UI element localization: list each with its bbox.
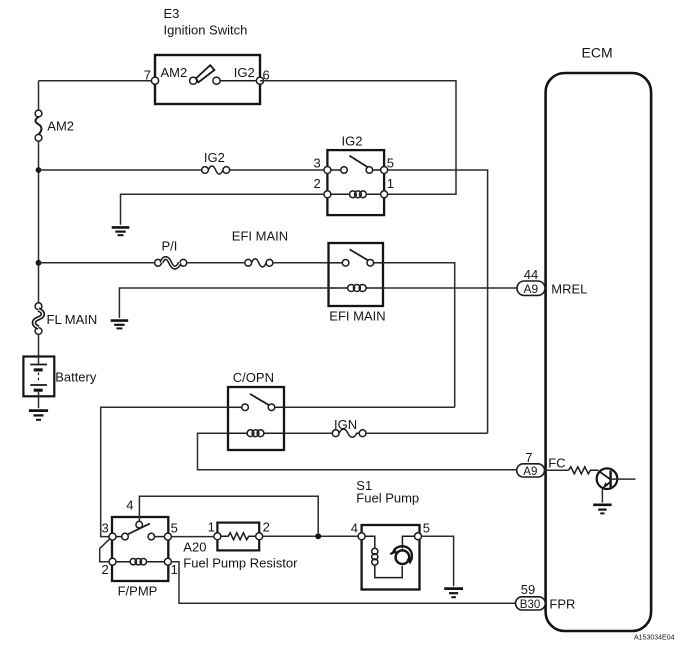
ECM U1 box	[546, 73, 652, 631]
ground battery	[29, 411, 48, 420]
coil relay EFI MAIN	[329, 285, 384, 292]
svg-text:5: 5	[387, 156, 394, 171]
svg-text:C/OPN: C/OPN	[233, 370, 274, 385]
wire: EFI MAIN coil to MREL terminal	[383, 287, 517, 289]
node: junction bus/PI line	[36, 260, 42, 266]
svg-text:5: 5	[171, 520, 178, 535]
relay IG2 box	[327, 150, 384, 215]
node: junction resistor/relay riser	[315, 533, 321, 539]
svg-text:B30: B30	[520, 599, 540, 611]
relay C/OPN box	[228, 387, 284, 450]
svg-text:AM2: AM2	[47, 119, 74, 134]
svg-text:IG2: IG2	[342, 134, 363, 149]
svg-text:FPR: FPR	[549, 597, 575, 612]
connector terminal 7/A9 FC	[517, 464, 545, 478]
svg-text:Fuel Pump Resistor: Fuel Pump Resistor	[183, 556, 298, 571]
relay IG2 switch contacts and arm	[331, 156, 381, 174]
ground IG2 relay coil	[112, 227, 130, 235]
node: junction bus/IG2 line	[36, 167, 42, 173]
wire: EFI MAIN coil left to ground	[119, 288, 328, 318]
wire: battery bus to ignition switch pin 7	[39, 80, 156, 82]
pin 1 relay F/PMP	[164, 558, 171, 565]
svg-text:IG2: IG2	[204, 150, 225, 165]
wire: C/OPN coil right to IGN fuse	[284, 432, 332, 434]
pin 2 relay IG2	[324, 191, 331, 198]
svg-text:4: 4	[351, 520, 358, 535]
fusible link P/I	[155, 258, 187, 268]
wire: resistor A20 to fuel pump pin 4	[263, 535, 358, 537]
svg-text:A9: A9	[523, 466, 537, 478]
fusible link AM2	[35, 110, 42, 141]
svg-text:44: 44	[524, 267, 538, 282]
svg-text:MREL: MREL	[551, 281, 587, 296]
relay EFI MAIN box	[329, 243, 384, 306]
wire: F/PMP pin 5 to resistor A20	[171, 536, 214, 538]
wire: C/OPN switch in from F/PMP column	[101, 407, 228, 536]
svg-text:EFI MAIN: EFI MAIN	[232, 229, 288, 244]
svg-text:P/I: P/I	[162, 239, 178, 254]
pin 3 relay F/PMP	[109, 533, 116, 540]
wire: F/PMP pin 1 to FPR terminal	[171, 562, 515, 604]
pin 6 ignition switch	[256, 77, 263, 84]
wire: F/PMP pin 4 riser to resistor output junction	[139, 496, 318, 533]
pin 5 fuel pump	[415, 533, 422, 540]
svg-text:1: 1	[208, 520, 215, 535]
wire: P/I feed line segment	[39, 262, 155, 264]
svg-text:2: 2	[263, 520, 270, 535]
svg-text:AM2: AM2	[161, 65, 188, 80]
svg-text:7: 7	[525, 450, 532, 465]
resistor A20 box	[217, 523, 259, 551]
pin 2 relay F/PMP	[109, 558, 116, 565]
pin 4 fuel pump	[358, 533, 365, 540]
relay C/OPN switch contacts and arm	[228, 394, 284, 411]
connector terminal 44/A9 MREL	[517, 281, 545, 296]
fusible link FL MAIN	[34, 303, 43, 335]
pin 2 resistor A20	[256, 533, 263, 540]
svg-text:IG2: IG2	[234, 65, 255, 80]
svg-text:A9: A9	[524, 282, 539, 296]
svg-text:Fuel Pump: Fuel Pump	[356, 491, 419, 506]
relay EFI MAIN switch contacts and arm	[329, 249, 384, 266]
wire: pin 3 jumper to pin 2	[100, 539, 110, 562]
svg-text:4: 4	[126, 497, 133, 512]
ground EFI MAIN coil	[111, 321, 129, 329]
fuel pump motor M	[390, 536, 414, 564]
pin 3 relay IG2	[324, 167, 331, 174]
resistor base (ECM internal)	[569, 467, 599, 474]
fuel pump S1 box	[362, 525, 420, 590]
svg-text:7: 7	[144, 68, 151, 83]
svg-text:3: 3	[314, 156, 321, 171]
coil relay C/OPN	[228, 430, 284, 437]
svg-text:Ignition Switch: Ignition Switch	[164, 23, 248, 38]
wire: pin 6 to vertical x456	[260, 81, 456, 195]
relay F/PMP box	[112, 517, 168, 581]
wire: FC terminal to base resistor	[545, 469, 569, 471]
wire: IG2 feed line	[39, 169, 202, 171]
ground transistor emitter	[593, 505, 611, 514]
svg-text:A20: A20	[183, 540, 206, 555]
pin 7 ignition switch	[151, 77, 158, 84]
ignition switch lever	[190, 65, 257, 84]
svg-text:59: 59	[521, 582, 535, 597]
fuse EFI MAIN	[245, 259, 273, 267]
wire: IG2 fuse to relay pin 3	[230, 169, 324, 171]
svg-text:IGN: IGN	[334, 417, 357, 432]
pin 4 relay F/PMP	[136, 521, 143, 528]
wire: relay IG2 pin 5 to IGN column	[388, 170, 488, 433]
wire: FL MAIN to battery	[38, 334, 40, 356]
svg-text:1: 1	[171, 562, 178, 577]
wire: EFI MAIN switch out to C/OPN column	[383, 263, 455, 408]
ground fuel pump	[444, 589, 463, 598]
wire: EFI MAIN fuse to relay	[273, 262, 329, 264]
pin 5 relay IG2	[381, 167, 388, 174]
fuse IGN	[332, 429, 366, 437]
svg-text:EFI MAIN: EFI MAIN	[329, 309, 385, 324]
svg-text:2: 2	[102, 562, 109, 577]
svg-text:FC: FC	[548, 455, 565, 470]
wire: relay IG2 pin 2 to ground	[121, 194, 324, 225]
wire: P/I to EFI MAIN fuse	[187, 262, 245, 264]
svg-text:E3: E3	[164, 6, 180, 21]
svg-text:1: 1	[387, 176, 394, 191]
wire: battery to ground	[38, 396, 40, 408]
battery	[23, 357, 54, 397]
coil relay IG2	[331, 191, 381, 198]
wire: bus AM2 fuse to P/I junction	[38, 141, 40, 303]
transistor Q1	[597, 468, 636, 502]
svg-text:ECM: ECM	[582, 45, 613, 61]
relay F/PMP switch contacts and arm	[116, 524, 164, 540]
fuel pump internal wiring and coil	[365, 536, 402, 577]
svg-text:3: 3	[102, 520, 109, 535]
pin 1 resistor A20	[214, 533, 221, 540]
connector terminal 59/B30 FPR	[516, 597, 546, 611]
wire: C/OPN switch out to EFI MAIN riser	[284, 406, 455, 408]
wire: IGN fuse to IG2 relay column	[366, 432, 488, 434]
wire: left vertical bus top (pin7 down to AM2 fuse)	[38, 81, 40, 111]
fuse IG2	[202, 166, 230, 174]
resistor element A20	[221, 533, 256, 540]
coil relay F/PMP	[116, 559, 164, 565]
svg-text:2: 2	[314, 176, 321, 191]
pin 5 relay F/PMP	[164, 533, 171, 540]
pin 1 relay IG2	[381, 191, 388, 198]
svg-text:Battery: Battery	[55, 370, 97, 385]
svg-text:A153034E04: A153034E04	[634, 635, 675, 642]
svg-text:5: 5	[423, 520, 430, 535]
svg-text:FL MAIN: FL MAIN	[47, 312, 98, 327]
wire: C/OPN coil left to FC terminal	[198, 433, 518, 470]
ignition switch E3 box	[155, 55, 260, 104]
svg-text:F/PMP: F/PMP	[118, 584, 158, 599]
wire: fuel pump pin 5 to ground	[422, 536, 454, 586]
